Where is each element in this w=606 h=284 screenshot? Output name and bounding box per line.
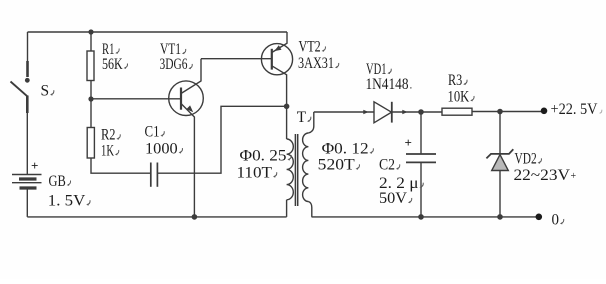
- resistor R2 1K: [87, 128, 94, 159]
- svg-text:C1: C1: [145, 124, 160, 141]
- bottom output rail: [312, 216, 537, 218]
- svg-text:3AX31: 3AX31: [298, 55, 334, 72]
- secondary bottom lead: [308, 202, 311, 217]
- transformer T primary winding (arcs bulge toward core): [287, 139, 294, 200]
- capacitor C2 bottom lead: [420, 162, 422, 217]
- node B: VT2 collector / C1 / primary junction: [284, 104, 290, 110]
- wire top rail to R1: [90, 32, 92, 51]
- VT1 emitter arrowhead (NPN): [186, 105, 193, 112]
- svg-text:56K: 56K: [102, 56, 123, 73]
- zener VD2 top lead: [499, 112, 501, 155]
- switch S upper contact dot: [25, 78, 30, 83]
- capacitor C1 right plate: [156, 163, 158, 187]
- transformer T secondary winding (arcs bulge toward core): [303, 133, 309, 202]
- svg-text:+: +: [31, 158, 38, 173]
- terminal 0V: [536, 214, 543, 221]
- zener VD2 cathode bar with bent ends: [486, 149, 513, 158]
- wire base node to VT1 base: [91, 98, 181, 100]
- transformer core line 1: [294, 134, 296, 206]
- svg-text:0: 0: [552, 211, 560, 228]
- wire C1 right plate to VT2 collector node: [157, 106, 286, 173]
- svg-text:VT2: VT2: [299, 39, 321, 56]
- switch S blade (open): [11, 82, 28, 97]
- svg-text:R3: R3: [448, 72, 462, 89]
- capacitor C2 top lead: [420, 112, 422, 154]
- wire battery to bottom rail: [26, 190, 28, 217]
- svg-text:Φ0. 12: Φ0. 12: [322, 141, 369, 158]
- node: VT1 emitter / bottom rail junction: [192, 214, 198, 220]
- node A: R1/R2/VT1-base junction: [88, 96, 93, 101]
- node: top rail / R1 junction: [88, 29, 93, 34]
- terminal +22.5V: [541, 108, 548, 115]
- battery GB plate 4 short thick: [20, 186, 37, 189]
- zener VD2 bottom lead: [499, 171, 501, 217]
- zener VD2 anode triangle (filled): [492, 155, 509, 171]
- bottom rail left section: [27, 216, 286, 218]
- svg-text:+: +: [571, 171, 577, 182]
- wire R1 to base node: [90, 81, 92, 128]
- capacitor C2 top plate: [406, 153, 436, 155]
- svg-text:50V: 50V: [379, 190, 408, 207]
- svg-text:1000: 1000: [145, 140, 178, 157]
- wire VT1 collector to VT2 base: [201, 58, 272, 60]
- VT1 emitter lead: [181, 104, 194, 217]
- svg-text:+22. 5V: +22. 5V: [551, 101, 599, 118]
- VT2 emitter arrowhead (PNP, points at bar): [274, 45, 281, 51]
- svg-text:1N4148: 1N4148: [366, 76, 409, 93]
- VT1 collector lead: [181, 59, 201, 94]
- left vertical wire from top rail: [27, 32, 29, 62]
- resistor R3 10K: [442, 108, 472, 115]
- transformer core line 2: [297, 134, 299, 206]
- battery GB plate 1 long: [12, 174, 42, 176]
- svg-text:VD2: VD2: [515, 151, 537, 168]
- svg-text:520T: 520T: [318, 157, 356, 174]
- diode VD1 triangle: [374, 102, 392, 123]
- transistor VT2 circle: [261, 44, 292, 75]
- diode VD1 cathode bar: [391, 102, 393, 123]
- node: VD2 / bottom rail junction: [497, 214, 503, 220]
- svg-text:+: +: [405, 135, 412, 150]
- node: VD1 cathode / C2 top junction: [418, 109, 424, 115]
- svg-text:110T: 110T: [237, 165, 273, 182]
- battery GB plate 3 long: [12, 182, 42, 184]
- wire switch to battery: [26, 113, 28, 175]
- current arrow before VD1: [363, 110, 368, 115]
- switch S upper contact lead: [26, 61, 29, 77]
- switch S lower contact lead: [26, 96, 29, 114]
- wire R3 to +22.5V terminal: [472, 111, 544, 113]
- VT2 collector lead: [272, 66, 287, 107]
- svg-text:3DG6: 3DG6: [160, 56, 188, 73]
- svg-text:R2: R2: [101, 127, 116, 144]
- wire VT2 collector node down to primary top: [286, 106, 288, 139]
- svg-text:GB: GB: [49, 173, 66, 190]
- svg-text:S: S: [41, 83, 50, 100]
- secondary top lead: [308, 112, 313, 133]
- wire primary bottom to bottom rail: [286, 200, 288, 217]
- svg-text:C2: C2: [379, 157, 395, 174]
- battery GB plate 2 short thick: [19, 177, 37, 180]
- transistor VT1 circle: [169, 81, 204, 116]
- svg-text:22~23V: 22~23V: [514, 167, 571, 184]
- node: R3 / VD2 top junction: [497, 109, 503, 115]
- svg-text:T: T: [297, 109, 307, 126]
- svg-text:1. 5V: 1. 5V: [48, 193, 86, 210]
- svg-text:Φ0. 25: Φ0. 25: [240, 147, 287, 164]
- capacitor C1 left plate: [150, 163, 152, 187]
- resistor R1 56K: [87, 51, 94, 81]
- capacitor C2 bottom plate: [406, 161, 436, 163]
- VT2 base bar: [271, 49, 273, 70]
- top supply rail: [28, 31, 288, 33]
- svg-text:1K: 1K: [101, 142, 115, 159]
- VT2 emitter lead to top rail: [272, 32, 287, 53]
- svg-text:.: .: [410, 80, 413, 92]
- current arrow after VD1: [402, 110, 407, 115]
- wire R2 to C1 left plate: [91, 158, 151, 173]
- node: C2 bottom / rail junction: [418, 214, 424, 220]
- svg-text:10K: 10K: [448, 88, 470, 105]
- top output rail secondary to VD1: [314, 111, 374, 113]
- wire VD1 to R3: [392, 111, 442, 113]
- VT1 base bar: [180, 88, 182, 110]
